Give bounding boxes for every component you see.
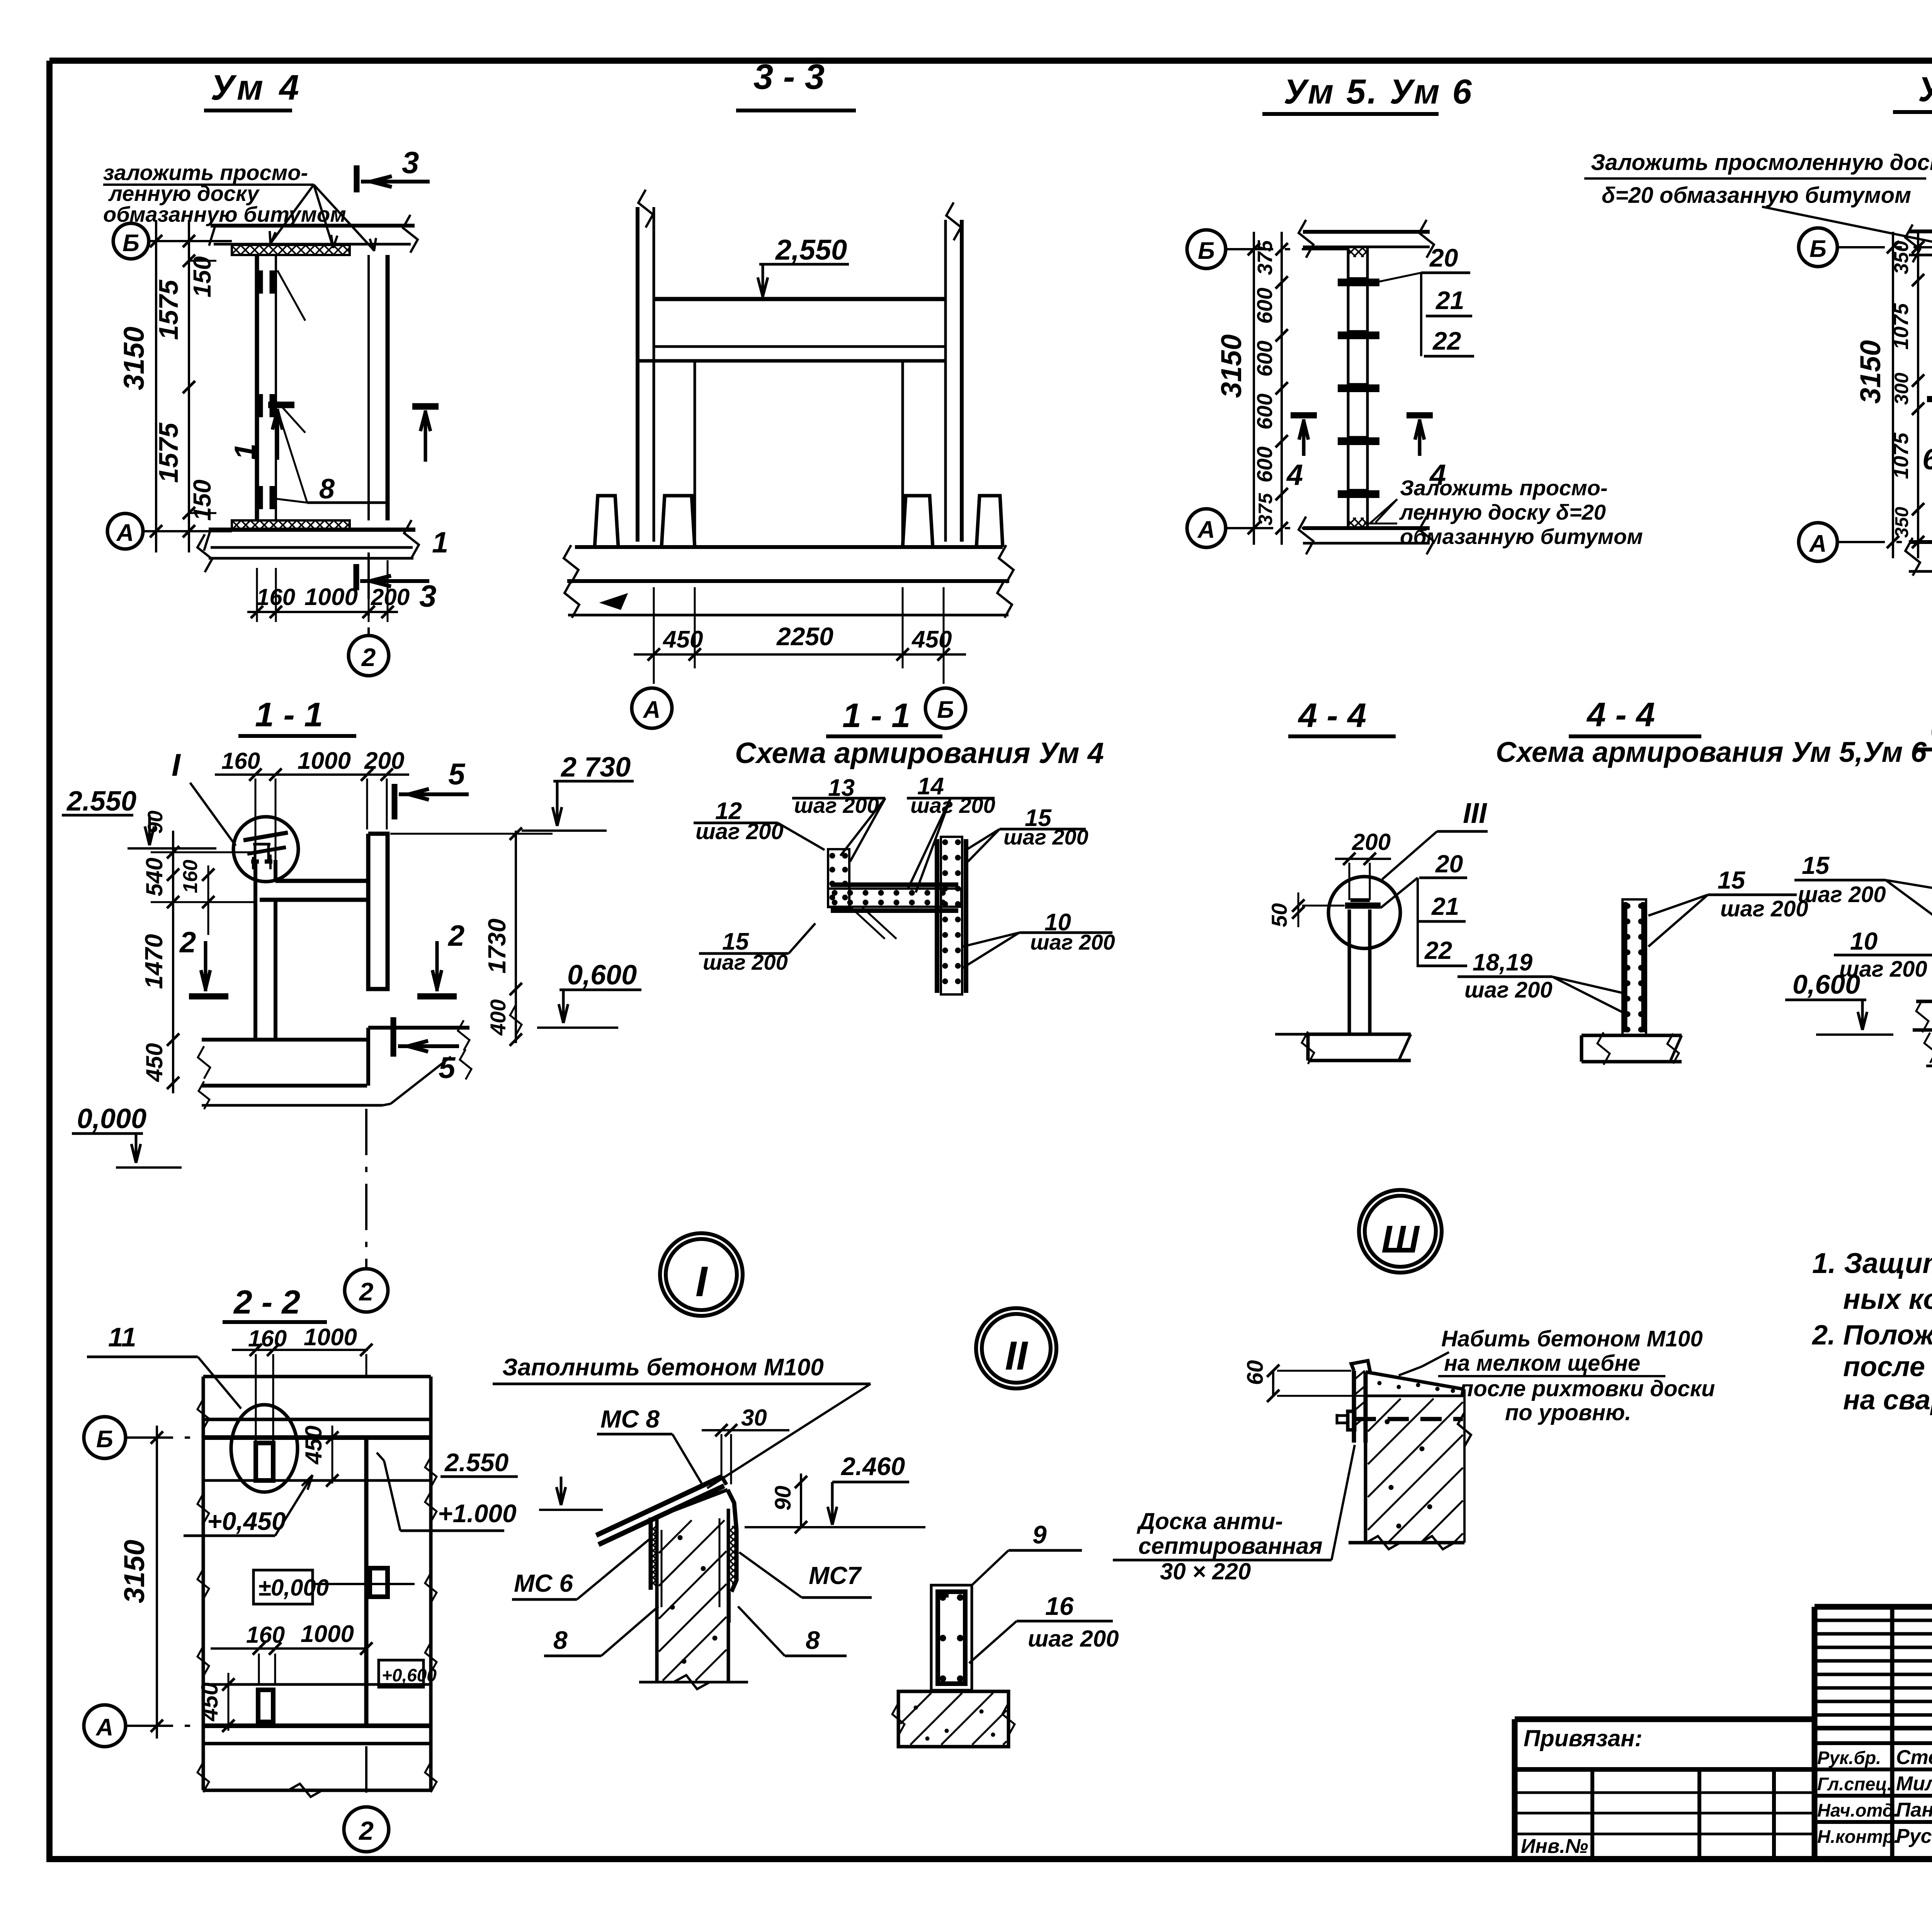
svg-text:δ=20 обмазанную битумом: δ=20 обмазанную битумом xyxy=(1602,183,1911,208)
figure III dotted top band xyxy=(1378,1381,1381,1385)
figure I bottom break xyxy=(673,1675,710,1689)
svg-text:1000: 1000 xyxy=(298,748,351,774)
svg-text:2.550: 2.550 xyxy=(66,786,136,817)
svg-text:Ум 8: Ум 8 xyxy=(1918,70,1932,109)
3-3 arrow mark on base xyxy=(603,595,626,608)
Um8 top slab xyxy=(1909,229,1932,233)
Um8 axis circles xyxy=(1799,228,1837,267)
svg-text:350: 350 xyxy=(1890,241,1913,274)
svg-text:Рук.бр.: Рук.бр. xyxy=(1817,1747,1881,1768)
svg-text:А: А xyxy=(116,520,134,546)
detail circle I xyxy=(660,1233,743,1316)
1-1 plan right flange xyxy=(368,834,388,989)
figure I inner lines xyxy=(661,1530,663,1607)
svg-text:600: 600 xyxy=(1252,341,1277,377)
2-2 outer rect xyxy=(203,1375,431,1378)
svg-text:Ум 5. Ум 6: Ум 5. Ум 6 xyxy=(1284,73,1473,111)
svg-text:А: А xyxy=(643,697,661,723)
1-1 section mark 5 bottom xyxy=(391,1017,396,1057)
Um4 section mark 3 bottom xyxy=(354,564,359,590)
svg-text:375: 375 xyxy=(1253,240,1277,275)
Um4 wall elevation xyxy=(255,255,259,520)
svg-text:3150: 3150 xyxy=(118,1540,150,1603)
svg-text:6 - 6: 6 - 6 xyxy=(1930,710,1932,748)
svg-text:18,19: 18,19 xyxy=(1473,949,1533,976)
svg-text:0,600: 0,600 xyxy=(567,960,637,991)
svg-text:Б: Б xyxy=(122,230,139,257)
3-3 base layer xyxy=(568,614,1009,617)
figure III bolt xyxy=(1337,1414,1348,1417)
svg-text:450: 450 xyxy=(662,626,703,653)
svg-text:II: II xyxy=(1005,1333,1028,1378)
Um4 dim chain 3150 xyxy=(155,220,157,552)
svg-text:1575: 1575 xyxy=(153,279,184,340)
svg-text:350: 350 xyxy=(1892,507,1912,538)
svg-text:Панченко: Панченко xyxy=(1896,1799,1932,1821)
Um5 board hatch top and bottom xyxy=(1348,247,1356,255)
svg-text:на мелком щебне: на мелком щебне xyxy=(1444,1351,1640,1376)
svg-text:2: 2 xyxy=(358,1816,374,1846)
svg-text:3: 3 xyxy=(419,579,437,613)
svg-text:60: 60 xyxy=(1243,1360,1268,1385)
4-4 foundation slab xyxy=(1308,1033,1411,1036)
svg-text:200: 200 xyxy=(1352,829,1391,855)
svg-text:после чего фиксируется пласт: после чего фиксируется пластинами МС6 и … xyxy=(1843,1351,1932,1382)
svg-text:2: 2 xyxy=(179,926,196,959)
4-4 schema wall with rebar xyxy=(1622,899,1646,1035)
1-1 bottom right step xyxy=(368,1026,469,1030)
svg-text:1075: 1075 xyxy=(1889,432,1913,479)
1-1 left dim chain xyxy=(172,831,174,1093)
svg-text:I: I xyxy=(696,1258,708,1305)
svg-text:3: 3 xyxy=(402,145,419,180)
4-4 wall top plate xyxy=(1345,902,1381,909)
svg-text:2. Положение МС8 уточняется: 2. Положение МС8 уточняется при монтаже … xyxy=(1811,1320,1932,1351)
svg-text:Нач.отд.: Нач.отд. xyxy=(1817,1800,1899,1820)
3-3 bottom channel profile xyxy=(575,545,1003,549)
svg-text:1470: 1470 xyxy=(140,934,168,989)
figure III board vertical xyxy=(1352,1371,1356,1443)
svg-text:1 - 1: 1 - 1 xyxy=(255,695,323,734)
2-2 vertical wall line xyxy=(364,1438,369,1726)
svg-text:160: 160 xyxy=(221,748,260,774)
svg-text:шаг 200: шаг 200 xyxy=(1028,1626,1119,1652)
figure I leader from title xyxy=(707,1384,871,1488)
svg-text:600: 600 xyxy=(1252,288,1277,324)
svg-text:450: 450 xyxy=(301,1426,327,1465)
svg-text:по уровню.: по уровню. xyxy=(1505,1400,1631,1425)
svg-text:III: III xyxy=(1463,797,1487,829)
Um5 leader from wall to 20 xyxy=(1372,273,1421,283)
4-4 detail circle at wall top xyxy=(1328,877,1400,948)
1-1 schema web xyxy=(828,889,961,907)
Um5 section marks 4 xyxy=(1291,412,1317,418)
svg-text:3150: 3150 xyxy=(118,326,150,390)
Um8 section marks 6 xyxy=(1927,396,1932,402)
Um4 rebar marks on wall xyxy=(257,270,263,294)
svg-text:8: 8 xyxy=(553,1626,568,1654)
Um4 dim chain 150 1575 xyxy=(188,220,190,552)
svg-text:септированная: септированная xyxy=(1138,1533,1323,1559)
svg-text:2.550: 2.550 xyxy=(444,1448,509,1477)
svg-text:А: А xyxy=(1809,530,1827,557)
svg-text:МС 6: МС 6 xyxy=(514,1569,573,1597)
svg-text:Ум 4: Ум 4 xyxy=(211,68,302,107)
svg-text:5: 5 xyxy=(439,1050,456,1084)
svg-text:шаг 200: шаг 200 xyxy=(1798,882,1886,907)
1-1 plan web xyxy=(276,879,368,883)
svg-text:20: 20 xyxy=(1429,243,1458,272)
svg-text:400: 400 xyxy=(486,999,510,1036)
figure II beam cross section xyxy=(931,1585,972,1690)
figure III leader from note xyxy=(1422,1352,1449,1366)
svg-text:Набить бетоном М100: Набить бетоном М100 xyxy=(1441,1326,1703,1351)
svg-text:8: 8 xyxy=(319,474,335,505)
svg-text:обмазанную битумом: обмазанную битумом xyxy=(103,202,346,226)
svg-text:2.460: 2.460 xyxy=(840,1452,905,1480)
svg-text:2: 2 xyxy=(359,1277,374,1306)
Um4 bottom dim 160 1000 200 xyxy=(256,568,258,622)
svg-text:Доска анти-: Доска анти- xyxy=(1136,1508,1283,1534)
svg-text:обмазанную битумом: обмазанную битумом xyxy=(1400,524,1643,549)
Um5 dim chain 375 600 xyxy=(1281,232,1283,545)
svg-text:450: 450 xyxy=(141,1043,167,1082)
svg-text:300: 300 xyxy=(1891,372,1912,405)
svg-text:1000: 1000 xyxy=(304,1324,357,1351)
svg-text:20: 20 xyxy=(1435,850,1463,878)
1-1 bottom slab plan xyxy=(202,1038,367,1042)
2-2 band at A axis xyxy=(203,1683,366,1686)
svg-text:90: 90 xyxy=(770,1485,796,1511)
svg-text:160: 160 xyxy=(248,1326,287,1351)
svg-text:4 - 4: 4 - 4 xyxy=(1586,695,1655,734)
Um5 axis circles xyxy=(1187,230,1226,269)
Um4 bottom slab xyxy=(209,528,415,532)
title block signature table xyxy=(1815,1604,1932,1610)
Um4 top slab xyxy=(211,224,415,228)
1-1 top dim 160 1000 200 xyxy=(215,773,409,776)
2-2 dim 3150 xyxy=(156,1426,158,1739)
svg-text:1000: 1000 xyxy=(301,1621,354,1647)
svg-text:1: 1 xyxy=(432,526,448,559)
svg-text:2: 2 xyxy=(361,643,376,671)
svg-text:Заложить просмо-: Заложить просмо- xyxy=(1400,476,1607,500)
1-1 plan left wall xyxy=(253,860,257,1040)
6-6 foundation xyxy=(1916,1000,1932,1003)
Um5 wall xyxy=(1347,247,1350,528)
figure I concrete wall outline xyxy=(655,1517,659,1682)
svg-text:11: 11 xyxy=(108,1322,136,1352)
svg-text:I: I xyxy=(172,748,181,783)
svg-text:Привязан:: Привязан: xyxy=(1524,1725,1642,1751)
svg-text:600: 600 xyxy=(1252,447,1277,483)
figure I sloped board MC8 xyxy=(596,1477,722,1535)
svg-text:3150: 3150 xyxy=(1854,340,1886,404)
1-1 section mark 5 top xyxy=(392,784,398,819)
2-2 boxed +0.600 xyxy=(379,1660,423,1687)
Um5 dim chain 3150 xyxy=(1253,232,1255,545)
Um4 section mark 1 left xyxy=(268,402,294,408)
figure I MC6 angle left xyxy=(649,1518,653,1590)
svg-text:Схема армирования Ум 4: Схема армирования Ум 4 xyxy=(735,737,1104,770)
svg-text:15: 15 xyxy=(1802,851,1830,879)
privyazan table xyxy=(1515,1717,1815,1722)
2-2 axis circles xyxy=(84,1417,126,1458)
svg-text:Заполнить бетоном М100: Заполнить бетоном М100 xyxy=(502,1354,824,1381)
svg-text:2: 2 xyxy=(447,919,464,952)
1-1 left wall top bracket xyxy=(247,847,286,854)
Um4 column mark circle 2 xyxy=(367,552,370,636)
svg-text:после рихтовки доски: после рихтовки доски xyxy=(1460,1376,1715,1401)
svg-text:Н.контр.: Н.контр. xyxy=(1817,1826,1899,1847)
Um8 dim chain 3150 xyxy=(1892,232,1894,558)
svg-text:600: 600 xyxy=(1252,394,1277,430)
1-1 schema right flange xyxy=(941,837,962,994)
1-1 schema reinforcement left wall xyxy=(828,849,849,907)
detail circle III xyxy=(1359,1190,1442,1273)
svg-text:200: 200 xyxy=(364,748,404,774)
Um4 axis circles B and A xyxy=(113,223,149,259)
2-2 opening rects xyxy=(256,1443,273,1480)
svg-text:Схема армирования Ум 5,Ум 6: Схема армирования Ум 5,Ум 6 xyxy=(1496,736,1927,768)
figure III right break edge xyxy=(1458,1412,1471,1446)
Um5 tie bars across wall xyxy=(1338,279,1379,286)
figure III hatch xyxy=(1368,1399,1401,1431)
2-2 axis circle 2 xyxy=(365,1746,367,1804)
svg-text:1575: 1575 xyxy=(153,422,184,483)
3-3 left wall xyxy=(636,207,639,542)
svg-text:Ш: Ш xyxy=(1381,1218,1420,1261)
svg-text:1730: 1730 xyxy=(483,919,511,974)
2-2 slab band at B axis xyxy=(203,1418,431,1421)
Um8 dim chain 350 1075 300 1075 350 xyxy=(1917,232,1919,558)
svg-text:±0,000: ±0,000 xyxy=(258,1575,329,1601)
figure I concrete top slant xyxy=(657,1490,728,1517)
svg-text:2250: 2250 xyxy=(776,622,833,651)
svg-text:МС 8: МС 8 xyxy=(600,1405,660,1433)
3-3 axis circles A B xyxy=(653,668,655,684)
svg-text:Б: Б xyxy=(937,697,954,723)
detail circle II xyxy=(976,1308,1056,1389)
svg-text:шаг 200: шаг 200 xyxy=(910,793,995,817)
Um4 leader lines to mark 8 xyxy=(277,270,305,321)
3-3 inner walls down xyxy=(694,361,696,546)
Um5 wall joint lines xyxy=(1348,277,1367,279)
svg-text:1 - 1: 1 - 1 xyxy=(842,696,910,734)
Um4 tarred board top (hatched) xyxy=(232,245,350,255)
svg-text:Руссин: Руссин xyxy=(1896,1825,1932,1847)
Um5 top slab xyxy=(1303,230,1430,234)
4-4 schema foundation xyxy=(1582,1034,1682,1037)
1-1 inner dim 160 xyxy=(207,865,209,935)
svg-text:шаг 200: шаг 200 xyxy=(1720,896,1808,921)
svg-text:Б: Б xyxy=(1810,236,1827,262)
svg-text:на сварке.: на сварке. xyxy=(1843,1385,1932,1416)
svg-text:ных конструкций - 25 мм.: ных конструкций - 25 мм. xyxy=(1843,1283,1932,1315)
svg-text:5: 5 xyxy=(448,757,466,791)
svg-text:450: 450 xyxy=(911,626,952,653)
svg-text:375: 375 xyxy=(1255,493,1276,525)
1-1 detail circle I xyxy=(233,817,298,882)
1-1 axis circle 2 bottom xyxy=(365,1109,367,1267)
svg-text:3 - 3: 3 - 3 xyxy=(753,57,825,97)
2-2 boxed 0.000 xyxy=(253,1570,313,1604)
svg-text:шаг 200: шаг 200 xyxy=(1464,977,1553,1003)
Um5 note leader xyxy=(1762,207,1932,249)
svg-text:МС7: МС7 xyxy=(809,1562,862,1589)
figure II foundation xyxy=(898,1691,1009,1747)
svg-text:160: 160 xyxy=(257,584,295,610)
svg-text:шаг 200: шаг 200 xyxy=(794,793,879,817)
Um5 leader to board bottom xyxy=(1370,499,1397,523)
svg-text:9: 9 xyxy=(1032,1520,1047,1549)
2-2 detail ellipse xyxy=(231,1405,298,1492)
2-2 right band lines xyxy=(366,1479,431,1482)
svg-text:А: А xyxy=(95,1714,114,1741)
svg-text:160: 160 xyxy=(179,860,202,893)
figure I MC7 angle right xyxy=(728,1490,736,1592)
Um8 bottom slab xyxy=(1909,540,1932,544)
Um4 section mark 3 top xyxy=(354,165,360,192)
svg-text:Миллер: Миллер xyxy=(1896,1773,1932,1795)
svg-text:6: 6 xyxy=(1922,443,1932,476)
svg-text:ленную доску δ=20: ленную доску δ=20 xyxy=(1399,500,1606,524)
3-3 top slab xyxy=(654,297,946,301)
svg-text:Б: Б xyxy=(1198,238,1215,264)
1-1 bracket inside detail circle xyxy=(243,833,288,840)
svg-text:90: 90 xyxy=(144,811,167,834)
svg-text:16: 16 xyxy=(1045,1592,1074,1620)
svg-text:+1.000: +1.000 xyxy=(438,1499,517,1528)
2-2 break marks xyxy=(197,1399,209,1429)
svg-text:22: 22 xyxy=(1424,936,1452,964)
svg-text:1075: 1075 xyxy=(1889,303,1913,350)
svg-text:Стежко: Стежко xyxy=(1896,1746,1932,1769)
svg-text:30 × 220: 30 × 220 xyxy=(1160,1558,1251,1584)
svg-text:2 - 2: 2 - 2 xyxy=(233,1284,300,1321)
svg-text:Инв.№: Инв.№ xyxy=(1521,1835,1588,1858)
svg-text:4: 4 xyxy=(1286,459,1303,491)
svg-text:21: 21 xyxy=(1431,892,1459,920)
svg-text:150: 150 xyxy=(188,479,216,521)
figure I hatch xyxy=(659,1520,692,1553)
Um4 note leader lines xyxy=(270,185,314,243)
svg-text:2 730: 2 730 xyxy=(560,752,631,783)
Um4 section mark 1 right xyxy=(412,403,439,410)
Um4 axis lines xyxy=(149,240,232,242)
svg-text:2,550: 2,550 xyxy=(775,234,847,266)
1-1 schema corner hatch lines xyxy=(850,907,885,939)
svg-text:15: 15 xyxy=(1718,866,1746,894)
svg-text:+0,450: +0,450 xyxy=(207,1507,286,1535)
svg-text:1: 1 xyxy=(229,444,262,460)
svg-text:1000: 1000 xyxy=(304,584,358,610)
svg-text:0,600: 0,600 xyxy=(1793,969,1860,999)
svg-text:540: 540 xyxy=(141,858,167,896)
svg-text:3150: 3150 xyxy=(1215,334,1247,398)
svg-text:Заложить просмоленную доску: Заложить просмоленную доску xyxy=(1591,150,1932,175)
4-4 wall xyxy=(1348,909,1351,1034)
svg-text:10: 10 xyxy=(1850,927,1878,955)
svg-text:Б: Б xyxy=(96,1426,113,1453)
3-3 dim line 450 2250 450 xyxy=(653,587,655,668)
svg-text:8: 8 xyxy=(806,1626,820,1654)
Um5 bottom slab xyxy=(1303,526,1430,530)
svg-text:50: 50 xyxy=(1267,903,1291,927)
svg-text:4 - 4: 4 - 4 xyxy=(1298,696,1366,734)
svg-text:Гл.спец.: Гл.спец. xyxy=(1817,1774,1892,1794)
svg-text:30: 30 xyxy=(741,1405,767,1431)
svg-text:А: А xyxy=(1197,517,1215,543)
svg-text:0,000: 0,000 xyxy=(77,1103,146,1134)
Um4 tarred board bottom (hatched) xyxy=(232,520,350,530)
1-1 right dim 1730 400 xyxy=(515,831,517,1043)
svg-text:21: 21 xyxy=(1435,286,1464,314)
svg-text:150: 150 xyxy=(188,256,216,297)
svg-text:450: 450 xyxy=(197,1683,223,1722)
3-3 right wall xyxy=(944,220,947,542)
svg-text:1. Защитный слой бетона для л: 1. Защитный слой бетона для лотка 20мм, … xyxy=(1812,1247,1932,1279)
svg-text:+0,600: +0,600 xyxy=(382,1665,437,1685)
svg-text:22: 22 xyxy=(1432,326,1461,355)
figure III concrete block xyxy=(1366,1372,1464,1389)
